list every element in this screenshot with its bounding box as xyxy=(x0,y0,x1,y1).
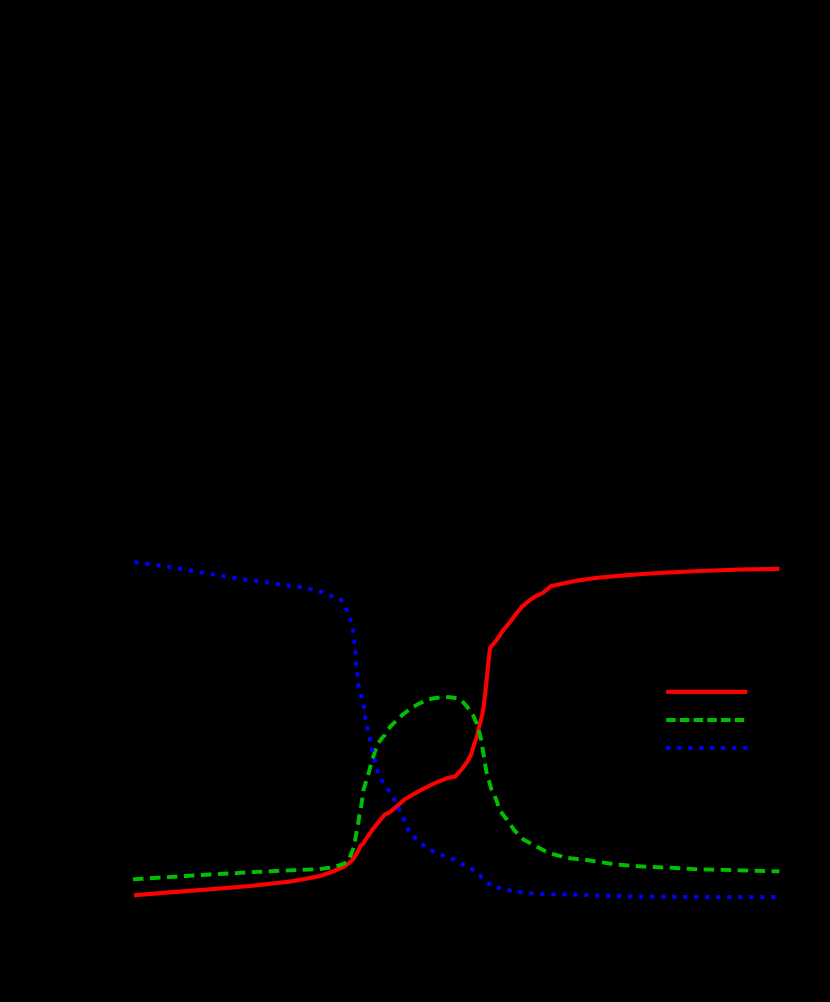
legend red sample xyxy=(666,690,747,694)
legend green sample xyxy=(666,718,747,722)
blue dotted curve xyxy=(135,562,780,897)
green dashed curve xyxy=(133,697,779,879)
legend blue sample xyxy=(666,746,747,750)
red solid curve xyxy=(134,569,780,896)
